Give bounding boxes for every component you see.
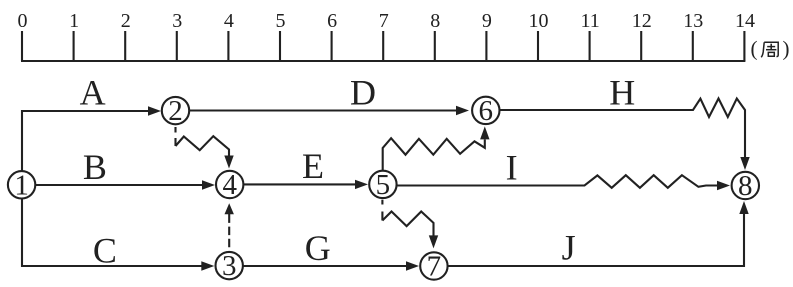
float wave 5-6 (383, 126, 490, 170)
unit label (周) (751, 37, 790, 61)
svg-text:G: G (305, 228, 331, 268)
node 2 (162, 95, 189, 127)
activity I arrow 5-8 with float wave (398, 175, 731, 190)
svg-text:1: 1 (14, 169, 29, 201)
svg-text:6: 6 (327, 10, 337, 32)
svg-text:12: 12 (632, 10, 652, 32)
node 7 (420, 251, 447, 283)
node 6 (472, 95, 499, 127)
svg-text:J: J (562, 228, 576, 268)
svg-text:8: 8 (738, 170, 753, 202)
svg-text:C: C (93, 231, 117, 271)
svg-text:D: D (350, 73, 376, 113)
svg-text:4: 4 (224, 10, 234, 32)
svg-text:6: 6 (479, 95, 494, 127)
activity H arrow 6-8 with float wave (499, 99, 749, 171)
node 3 (216, 250, 243, 282)
activity D arrow 2-6 (190, 106, 470, 115)
time scale numbers 0-14 (18, 10, 756, 32)
activity G arrow 3-7 (243, 261, 419, 270)
svg-text:H: H (609, 73, 635, 113)
svg-text:8: 8 (430, 10, 440, 32)
svg-text:0: 0 (18, 10, 28, 32)
svg-text:10: 10 (529, 10, 549, 32)
activity A arrow 1-2 (22, 106, 161, 170)
svg-text:E: E (302, 146, 324, 186)
node 8 (732, 170, 759, 202)
time scale baseline (21, 60, 745, 62)
node 1 (8, 169, 35, 201)
activity J arrow 7-8 (448, 201, 749, 266)
svg-text:11: 11 (580, 10, 599, 32)
svg-text:14: 14 (735, 10, 755, 32)
svg-text:5: 5 (276, 10, 286, 32)
node 4 (216, 169, 243, 201)
dummy with float wave 5-7 (382, 200, 438, 249)
dummy arrow 3-4 (dashed) (225, 203, 234, 247)
time scale tick marks 0-14 (22, 31, 744, 61)
svg-text:3: 3 (222, 250, 237, 282)
svg-text:4: 4 (222, 169, 237, 201)
activity B arrow 1-4 (35, 180, 215, 189)
svg-text:A: A (80, 73, 106, 113)
activity E arrow 4-5 (244, 180, 368, 189)
svg-text:3: 3 (172, 10, 182, 32)
svg-text:I: I (506, 148, 518, 188)
svg-text:7: 7 (427, 251, 442, 283)
svg-text:): ) (783, 37, 790, 61)
svg-text:13: 13 (683, 10, 703, 32)
svg-text:B: B (83, 147, 107, 187)
node 5 (369, 169, 396, 201)
dummy with float wave 2-4 (176, 127, 234, 169)
svg-text:(: ( (751, 37, 758, 61)
svg-text:5: 5 (376, 169, 391, 201)
svg-text:1: 1 (69, 10, 79, 32)
svg-text:2: 2 (121, 10, 131, 32)
svg-text:9: 9 (482, 10, 492, 32)
svg-text:2: 2 (168, 95, 183, 127)
activity C arrow 1-3 (22, 199, 214, 271)
svg-text:7: 7 (379, 10, 389, 32)
